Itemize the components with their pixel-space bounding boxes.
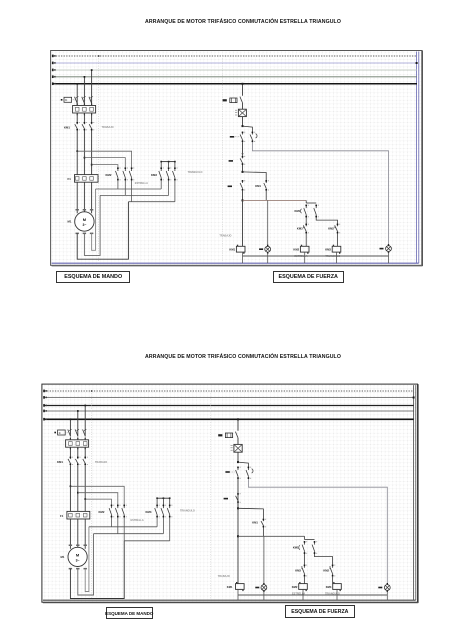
svg-text:ESTRELLA: ESTRELLA xyxy=(135,182,148,185)
svg-text:M1: M1 xyxy=(68,220,72,224)
svg-text:TRABAJO: TRABAJO xyxy=(218,575,230,578)
svg-text:TRABAJO: TRABAJO xyxy=(102,126,114,129)
svg-text:KM2: KM2 xyxy=(106,173,112,177)
svg-text:KM2: KM2 xyxy=(293,248,299,252)
svg-text:3~: 3~ xyxy=(76,559,80,563)
svg-text:KM1: KM1 xyxy=(255,184,261,188)
svg-text:KM1: KM1 xyxy=(293,545,299,549)
svg-text:KM3: KM3 xyxy=(297,226,303,230)
svg-text:TRIANGULO: TRIANGULO xyxy=(188,171,203,174)
svg-text:ESTRELLA: ESTRELLA xyxy=(131,519,144,522)
svg-text:KM1: KM1 xyxy=(295,209,301,213)
svg-text:F1: F1 xyxy=(68,177,72,181)
svg-text:KM1: KM1 xyxy=(57,460,63,464)
svg-text:3~: 3~ xyxy=(82,223,86,227)
svg-text:KM3: KM3 xyxy=(325,248,331,252)
svg-text:KM2: KM2 xyxy=(323,568,329,572)
svg-text:TRABAJO: TRABAJO xyxy=(219,235,231,238)
svg-text:KM1: KM1 xyxy=(229,248,235,252)
svg-text:KM1: KM1 xyxy=(64,125,70,129)
svg-text:KM3: KM3 xyxy=(295,568,301,572)
svg-text:KM1: KM1 xyxy=(252,520,258,524)
svg-text:TRIANGULO: TRIANGULO xyxy=(180,510,195,513)
svg-text:KM3: KM3 xyxy=(151,173,157,177)
svg-text:KM1: KM1 xyxy=(227,585,233,589)
svg-text:KM2: KM2 xyxy=(292,585,298,589)
svg-text:KM2: KM2 xyxy=(328,226,334,230)
svg-text:F1: F1 xyxy=(60,514,64,518)
svg-text:TRABAJO: TRABAJO xyxy=(95,461,107,464)
svg-text:KM3: KM3 xyxy=(326,585,332,589)
svg-text:KM2: KM2 xyxy=(99,510,105,514)
svg-text:M1: M1 xyxy=(61,555,65,559)
svg-text:KM3: KM3 xyxy=(146,510,152,514)
